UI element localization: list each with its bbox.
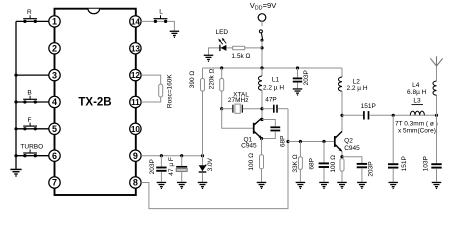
capacitor 151P (coupling) <box>361 103 376 120</box>
node: Q2 collector / L2 / 151P junction <box>340 114 343 117</box>
svg-text:L: L <box>159 8 163 15</box>
node: 33K tap <box>299 140 302 143</box>
pin 6 <box>49 150 60 161</box>
svg-text:151P: 151P <box>401 156 408 171</box>
capacitor C 47uF electrolytic <box>168 156 187 182</box>
svg-text:151P: 151P <box>361 103 376 110</box>
IC U1 TX-2B body <box>55 9 136 195</box>
svg-text:LED: LED <box>215 29 228 36</box>
ground: Q1 emitter resistor <box>257 182 267 188</box>
ground: LED <box>204 55 214 61</box>
resistor 100 ohm (Q1 emitter) <box>248 139 263 182</box>
wire: VDD rail <box>203 67 343 69</box>
switch B <box>23 90 37 104</box>
switch: power on/off <box>259 21 263 42</box>
pin 9 <box>130 150 141 161</box>
svg-text:6: 6 <box>52 151 57 161</box>
node: bus junction at pin 6 <box>14 154 17 157</box>
wire: Q2 emitter down <box>341 151 343 158</box>
resistor R 1.5k <box>231 46 250 60</box>
ground: 203P (pin9) <box>157 182 167 188</box>
svg-text:3: 3 <box>52 70 57 80</box>
switch L <box>154 8 168 23</box>
svg-text:C945: C945 <box>344 145 360 152</box>
inductor L1 2.2uH <box>258 68 284 118</box>
node: rail 203P junction <box>296 66 299 69</box>
ground: key bus <box>10 169 21 176</box>
wire: collector to 151P <box>342 114 363 116</box>
svg-text:9: 9 <box>133 151 138 161</box>
svg-text:10: 10 <box>131 125 141 134</box>
svg-text:33K Ω: 33K Ω <box>292 154 299 172</box>
svg-text:R: R <box>27 9 32 16</box>
svg-text:100 Ω: 100 Ω <box>248 153 255 171</box>
LED D1 <box>215 29 228 51</box>
svg-text:F: F <box>28 117 32 124</box>
svg-text:390 Ω: 390 Ω <box>189 71 196 89</box>
switch R <box>23 9 37 23</box>
node: XTAL junction <box>220 107 223 110</box>
svg-text:L4: L4 <box>412 82 420 89</box>
svg-text:2.2 µ H: 2.2 µ H <box>346 85 367 92</box>
svg-text:27MHz: 27MHz <box>228 97 249 104</box>
node: rail/VDD junction <box>260 66 263 69</box>
svg-text:VDD=9V: VDD=9V <box>250 1 278 11</box>
pin 11 <box>130 96 141 107</box>
svg-text:47 µ F: 47 µ F <box>168 157 175 176</box>
wire: pin 14 to switch L to ground <box>141 21 174 30</box>
capacitor 203P (rail bypass) <box>293 68 310 88</box>
node: bus junction at pin 5 <box>14 127 17 130</box>
svg-text:TX-2B: TX-2B <box>78 97 111 109</box>
svg-text:203P: 203P <box>149 159 156 174</box>
node: Q2 base junction <box>286 140 289 143</box>
svg-text:203P: 203P <box>367 161 374 176</box>
node: Q1 emitter junction <box>260 137 263 140</box>
resistor R 220k <box>209 68 224 109</box>
capacitor 103P <box>423 115 442 182</box>
transistor Q1 C945 <box>241 118 262 149</box>
svg-text:1.5k Ω: 1.5k Ω <box>231 53 250 60</box>
diode zener 3.0V <box>199 156 214 182</box>
ground: zener <box>198 182 208 188</box>
pin 12 <box>130 69 141 80</box>
wire: bus to pin 1 (switch R branch) <box>16 20 49 22</box>
svg-text:2.2 µ H: 2.2 µ H <box>263 85 284 92</box>
svg-text:Rosc=160K: Rosc=160K <box>166 74 173 108</box>
svg-text:68P: 68P <box>280 136 287 148</box>
capacitor 203P (pin9) <box>149 156 167 182</box>
capacitor 47P <box>262 97 288 113</box>
wire: LED branch <box>209 48 263 55</box>
wire: pin 12 to Rosc <box>141 75 161 84</box>
svg-text:100 Ω: 100 Ω <box>330 155 337 173</box>
pin 3 <box>49 69 60 80</box>
pin 7 <box>49 177 60 188</box>
inductor L4 6.8uH <box>407 66 436 116</box>
node: LED branch junction <box>260 46 263 49</box>
wire: XTAL node down to Q1 base <box>222 109 253 129</box>
wire: VDD line down to rail <box>261 40 263 68</box>
ground: 100 ohm (Q2) <box>337 182 347 188</box>
svg-text:103P: 103P <box>423 156 430 171</box>
svg-text:8: 8 <box>133 178 138 188</box>
svg-text:C945: C945 <box>241 142 257 149</box>
svg-text:2: 2 <box>52 44 57 54</box>
node: Q2 emitter junction <box>340 155 343 158</box>
svg-text:7: 7 <box>52 178 57 188</box>
node: bus junction at pin 3 <box>14 74 17 77</box>
ground: 103P <box>432 182 442 188</box>
wire: Rosc to pin 11 <box>141 97 161 102</box>
svg-text:Q2: Q2 <box>344 137 353 144</box>
node: Q1 collector / XTAL / 47P junction <box>260 107 263 110</box>
resistor 33K <box>292 142 302 182</box>
svg-text:TURBO: TURBO <box>20 144 43 151</box>
resistor 100 ohm (Q2 emitter) <box>330 155 344 182</box>
svg-text:11: 11 <box>131 98 140 107</box>
svg-text:3.0V: 3.0V <box>207 157 214 171</box>
node: zener junction <box>201 154 204 157</box>
node: 151P shunt tap <box>392 114 395 117</box>
pin 14 <box>130 16 141 27</box>
pin 4 <box>49 96 60 107</box>
svg-text:L3: L3 <box>413 98 421 105</box>
transistor Q2 C945 <box>335 131 360 152</box>
inductor L3 (7T coil) <box>395 98 438 135</box>
capacitor 203P (Q2 emitter) <box>357 161 375 181</box>
wire: bus to pin 4 (switch B branch) <box>16 101 49 103</box>
switch TURBO <box>20 144 43 158</box>
inductor L2 2.2uH <box>338 68 367 115</box>
switch F <box>23 117 37 131</box>
wire: left key bus <box>15 21 17 168</box>
svg-text:47P: 47P <box>265 97 277 104</box>
node: 68P feedback tap on collector <box>260 118 263 121</box>
pin 10 <box>130 123 141 134</box>
node: rail 220k junction <box>220 66 223 69</box>
wire: emitter to 203P <box>342 157 362 163</box>
capacitor 68P (feedback) <box>262 120 287 148</box>
ground: 203P rail bypass <box>293 89 303 95</box>
pin 8 <box>130 177 141 188</box>
node: 68P tap <box>322 140 325 143</box>
svg-text:B: B <box>27 90 31 97</box>
svg-text:7T 0.3mm ( ø ): 7T 0.3mm ( ø ) <box>395 120 438 127</box>
svg-text:x 5mm(Core): x 5mm(Core) <box>398 127 436 134</box>
svg-text:12: 12 <box>131 71 141 80</box>
svg-text:1: 1 <box>52 17 57 27</box>
pin 13 <box>130 43 141 54</box>
pin 2 <box>49 43 60 54</box>
crystal XTAL 27MHz <box>222 91 262 113</box>
svg-text:14: 14 <box>131 17 141 26</box>
ground: 151P shunt <box>388 182 398 188</box>
capacitor 68P (Q2 base) <box>309 142 329 182</box>
wire: bus to pin 6 (switch TURBO branch) <box>16 155 49 157</box>
svg-text:220k Ω: 220k Ω <box>209 68 216 89</box>
ground: 203P (Q2 emitter) <box>357 182 367 188</box>
wire: antenna feed line <box>369 114 437 116</box>
wire: bus to pin 3 <box>16 74 49 76</box>
terminal VDD=9V <box>250 1 278 21</box>
node: 203P tap <box>160 154 163 157</box>
svg-text:203P: 203P <box>303 70 310 85</box>
svg-text:6.8µ H: 6.8µ H <box>407 89 427 96</box>
wire: bus to pin 5 (switch F branch) <box>16 128 49 130</box>
resistor R 390 <box>189 68 204 156</box>
wire: pin 9 rail <box>141 155 202 157</box>
svg-text:L1: L1 <box>272 76 280 83</box>
svg-text:13: 13 <box>131 44 141 53</box>
ground: 68P (Q2 base) <box>319 182 329 188</box>
node: 47uF tap <box>180 154 183 157</box>
wire: Q2 collector riser <box>341 115 343 131</box>
wire: Q2 base rail <box>288 141 334 143</box>
ground: 33K <box>296 182 306 188</box>
capacitor 151P (shunt) <box>388 115 408 182</box>
antenna <box>430 56 442 66</box>
svg-text:4: 4 <box>52 97 57 107</box>
node: L4/103P junction <box>435 114 438 117</box>
wire: pin 8 to Q2 base net (bottom run) <box>141 109 288 209</box>
resistor Rosc=160K <box>159 84 163 97</box>
ground: 47uF <box>177 182 187 188</box>
pin 5 <box>49 123 60 134</box>
svg-text:5: 5 <box>52 124 57 134</box>
node: bus junction at pin 4 <box>14 100 17 103</box>
pin 1 <box>49 16 60 27</box>
ground: switch L <box>170 31 180 37</box>
svg-text:68P: 68P <box>309 158 316 170</box>
